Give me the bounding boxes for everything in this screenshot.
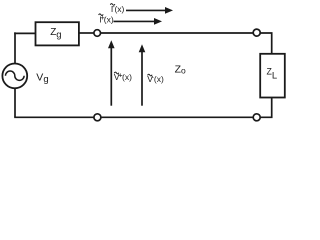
label V+(x) — [114, 70, 132, 82]
label V-(x) — [147, 72, 164, 84]
wire top rail (node A to node C) — [101, 32, 254, 34]
wire bottom rail (node D to node B) — [101, 116, 253, 118]
svg-text:V+(x): V+(x) — [114, 70, 132, 82]
resistor Zg — [36, 22, 79, 45]
svg-text:Zo: Zo — [175, 63, 186, 75]
svg-text:I+(x): I+(x) — [99, 13, 114, 25]
arrow current I-(x) — [126, 7, 173, 14]
node C (top-right terminal) — [253, 29, 260, 36]
wire top-left horizontal to Zg — [14, 32, 35, 34]
label I-(x) — [110, 2, 124, 14]
node B (bottom-left terminal) — [94, 114, 101, 121]
arrow voltage V+(x) — [108, 40, 115, 105]
wire bottom rail (node B to source) — [14, 116, 94, 118]
wire node C to ZL corner — [260, 33, 272, 55]
svg-text:I-(x): I-(x) — [111, 2, 125, 14]
node D (bottom-right terminal) — [253, 114, 260, 121]
wire left vertical (source to top rail) — [14, 32, 16, 63]
wire Zg to node A — [79, 32, 95, 34]
arrow current I+(x) — [114, 18, 163, 25]
wire ZL to bottom rail — [261, 97, 272, 117]
wire left vertical (source to bottom rail) — [14, 88, 16, 117]
svg-text:V-(x): V-(x) — [147, 72, 164, 84]
load ZL — [260, 54, 285, 98]
label I+(x) — [99, 13, 114, 25]
node A (top-left terminal) — [94, 30, 101, 37]
arrow voltage V-(x) — [139, 44, 146, 105]
svg-text:Vg: Vg — [36, 72, 48, 85]
AC source Vg — [2, 64, 27, 89]
